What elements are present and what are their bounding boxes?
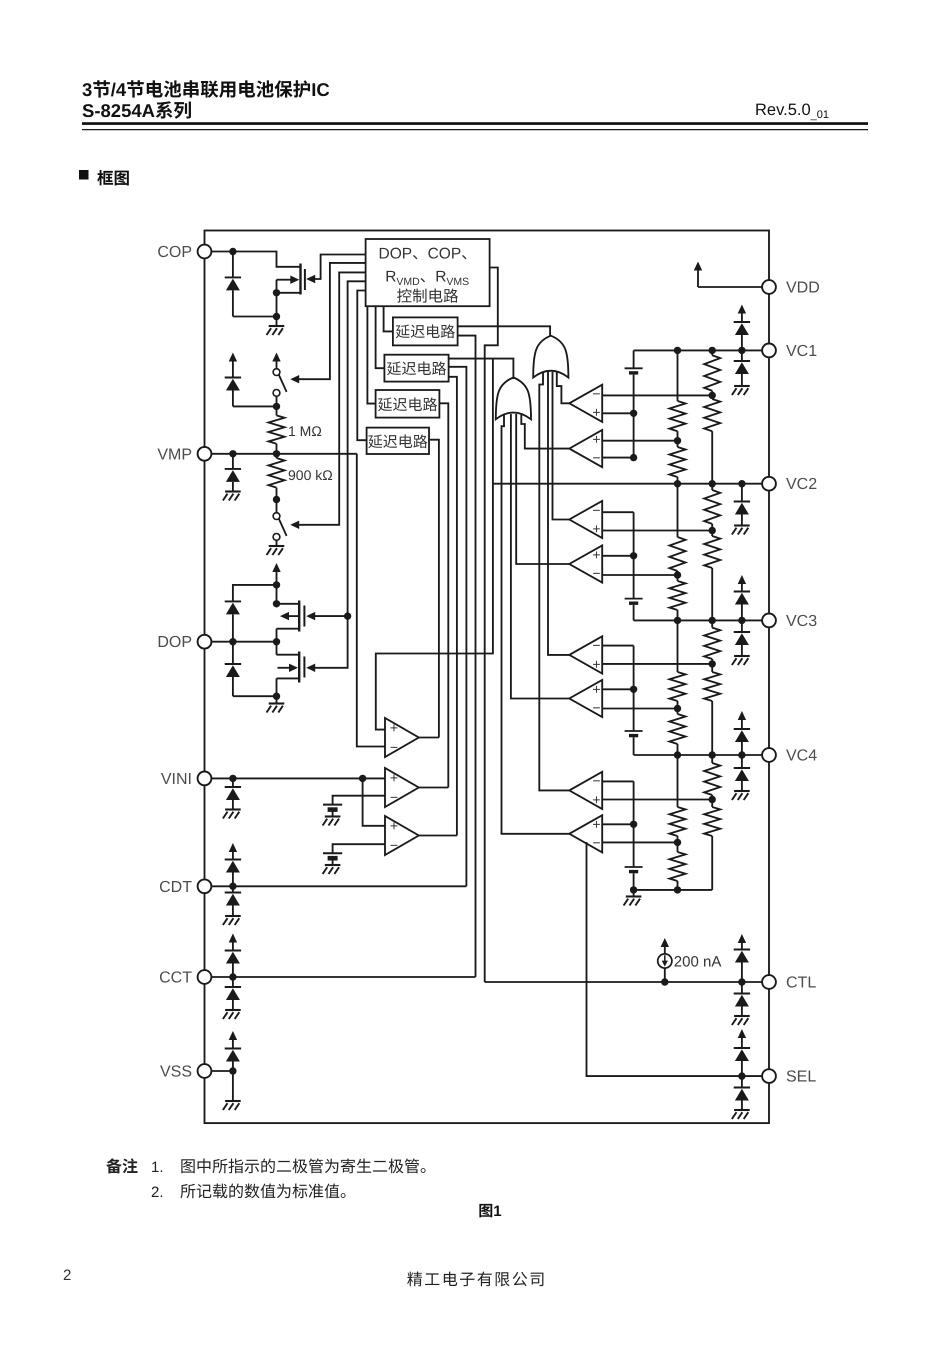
OR gate OR2 input leg from U4 xyxy=(516,414,569,564)
OR gate OR2 input leg from U8 xyxy=(502,413,572,834)
internal rail arrow above D15 xyxy=(738,575,746,584)
junction VMP resistor xyxy=(273,450,280,457)
wire DLY2 to control box xyxy=(376,306,385,368)
diode D11 (VSS parasitic) xyxy=(225,1048,241,1050)
figure caption 图1 xyxy=(479,1204,492,1218)
svg-text:+: + xyxy=(592,791,600,807)
wire VC3 xyxy=(634,619,763,621)
svg-text:+: + xyxy=(390,719,398,735)
svg-text:−: − xyxy=(592,450,600,466)
wire control box to switch SW1 xyxy=(295,263,366,379)
wire BT4 reference rail xyxy=(633,781,635,867)
wire VMP xyxy=(211,453,357,455)
wire VINI branch to U11 + xyxy=(363,778,385,825)
wire U9 - to VMP xyxy=(357,454,385,747)
wire DLY3 to control box xyxy=(367,306,375,403)
junction SW2 top xyxy=(273,496,280,503)
internal rail arrow above D12 xyxy=(738,305,746,314)
wire BT4 to ground rail xyxy=(633,873,635,890)
delay circuit block DLY3 xyxy=(376,390,440,418)
control circuit block (DOP/COP/RVMD/RVMS 控制电路) xyxy=(366,239,490,306)
diode D15 (VC3 upper parasitic) xyxy=(734,591,750,593)
diode D8 (CDT lower parasitic) xyxy=(232,886,234,892)
wire U3 + to divider tap xyxy=(602,530,712,532)
svg-text:+: + xyxy=(592,816,600,832)
resistors R13/R14 (divider A cell4) xyxy=(711,755,713,763)
internal pull-up arrow at D11 xyxy=(229,1031,237,1040)
junction divider B bottom xyxy=(674,886,681,893)
svg-text:CDT: CDT xyxy=(159,879,192,896)
wire control box to Q1 gate xyxy=(311,255,366,280)
svg-text:−: − xyxy=(592,637,600,653)
svg-text:VINI: VINI xyxy=(161,771,192,788)
junction CCT xyxy=(229,973,236,980)
comparator U10 (discharge overcurrent) xyxy=(385,768,419,807)
svg-text:−: − xyxy=(592,773,600,789)
svg-text:+: + xyxy=(592,404,600,420)
wire U6 + to reference BT3 xyxy=(602,688,633,690)
svg-text:−: − xyxy=(390,789,398,805)
reference VREF2 xyxy=(323,852,342,854)
internal rail arrow above D17 xyxy=(738,711,746,720)
wire U4 + to reference BT2 xyxy=(602,555,633,557)
svg-text:VDD: VDD xyxy=(786,280,820,297)
wire U2 + to divider tap xyxy=(602,440,677,442)
comparator U9 (load short detect) xyxy=(385,718,419,757)
pin circle VC2 xyxy=(762,477,776,491)
OR gate OR2 input leg from U6 xyxy=(511,414,570,699)
svg-text:VMS: VMS xyxy=(446,276,469,288)
IC boundary box xyxy=(205,231,770,1124)
wire DLY2 to OR2 output xyxy=(449,359,514,378)
wire U3 - to reference BT2 xyxy=(602,511,633,513)
diode D12 (VC1 upper parasitic) xyxy=(734,321,750,323)
ground at VREF2 xyxy=(325,864,341,866)
wire BT2 to VC3 xyxy=(633,605,635,621)
junction Q3 source ground node xyxy=(273,693,280,700)
ground at D6 xyxy=(225,808,241,810)
wire BT1 reference rail xyxy=(633,375,635,458)
pin circle VMP xyxy=(198,447,212,461)
diode D2 (VMP switch branch) xyxy=(225,377,241,379)
svg-text:200 nA: 200 nA xyxy=(674,954,722,971)
pin circle SEL xyxy=(762,1069,776,1083)
diode D14 (VC2 parasitic) xyxy=(741,484,743,502)
diode D10 (CCT lower parasitic) xyxy=(232,977,234,987)
diode D16 (VC3 lower parasitic) xyxy=(741,620,743,632)
wire COP to Q1 xyxy=(211,252,301,267)
wire DLY4 to comparator U9 output xyxy=(429,440,439,738)
wire BT3 reference rail xyxy=(633,646,635,731)
battery BT3 (cell3 reference) xyxy=(625,730,643,732)
resistor RV1 1 MΩ xyxy=(276,406,278,415)
svg-text:3: 3 xyxy=(82,79,92,100)
footer company name xyxy=(407,1272,422,1287)
svg-text:+: + xyxy=(390,817,398,833)
resistors R1/R2 (divider A cell1) xyxy=(711,350,713,355)
wire control box to Q2/Q3 gates xyxy=(311,281,366,668)
wire VSS to ground xyxy=(232,1071,234,1101)
svg-text:VC4: VC4 xyxy=(786,748,817,765)
wire U5 - to reference BT3 xyxy=(602,645,633,647)
wire U1 - to divider tap xyxy=(602,394,712,396)
svg-text:900 kΩ: 900 kΩ xyxy=(288,467,333,483)
diode D9 (CCT upper parasitic) xyxy=(225,950,241,952)
comparator U3 (cell 2 overcharge) xyxy=(569,501,602,538)
ground at VREF1 xyxy=(325,815,341,817)
svg-text:R: R xyxy=(435,269,446,286)
OR gate OR1 input leg from U1 xyxy=(557,371,570,403)
junction resistor top xyxy=(273,403,280,410)
ground at D13 xyxy=(734,385,750,387)
wire control box to CTL xyxy=(485,268,498,983)
svg-text:S-8254A: S-8254A xyxy=(82,100,155,121)
comparator U8 (cell 4 overdischarge) xyxy=(569,815,602,852)
ground at D18 xyxy=(734,790,750,792)
pin circle VSS xyxy=(198,1064,212,1078)
diode D4 (DOP upper parasitic) xyxy=(233,585,277,602)
diode D7 (CDT upper parasitic) xyxy=(225,859,241,861)
junction DOP pull-up xyxy=(273,581,280,588)
wire VINI to U10 + xyxy=(211,777,385,779)
pin circle COP xyxy=(198,245,212,259)
internal rail arrow above D21 xyxy=(738,1029,746,1038)
junction gate bus xyxy=(344,612,351,619)
pin circle CCT xyxy=(198,970,212,984)
svg-text:VC1: VC1 xyxy=(786,343,817,360)
OR gate OR1 input leg from U3 xyxy=(553,372,570,520)
wire group4 bottom rail xyxy=(634,889,713,891)
OR gate OR2 input leg from U2 xyxy=(521,413,569,449)
svg-text:Rev.5.0_01: Rev.5.0_01 xyxy=(755,101,829,121)
svg-text:SEL: SEL xyxy=(786,1069,816,1086)
wire U4 - to divider tap xyxy=(602,574,677,576)
svg-text:+: + xyxy=(592,681,600,697)
wire U1 + to reference BT1 xyxy=(602,412,633,414)
wire VC4 xyxy=(634,754,763,756)
wire U10 output xyxy=(419,787,449,789)
transistor Q3 (DOP lower) xyxy=(276,642,278,655)
svg-text:/4: /4 xyxy=(111,79,127,100)
resistors R9/R10 (divider A cell3) xyxy=(711,620,713,627)
current source I1 200 nA xyxy=(664,968,666,982)
wire DLY3 to comparator U10 output xyxy=(439,403,448,787)
svg-text:VC3: VC3 xyxy=(786,613,817,630)
internal pull-up arrow at DOP xyxy=(272,563,280,572)
junction VSS xyxy=(229,1067,236,1074)
comparator U1 (cell 1 overcharge) xyxy=(569,385,602,422)
wire DLY1 to OR1 output xyxy=(458,326,550,335)
wire control box to switch SW2 xyxy=(295,272,366,524)
junction CDT xyxy=(229,883,236,890)
wire DLY1 to control box xyxy=(384,306,393,331)
diode D5 (DOP lower parasitic) xyxy=(232,642,234,664)
svg-text:1 MΩ: 1 MΩ xyxy=(288,423,322,439)
ground at D20 xyxy=(734,1015,750,1017)
svg-text:VSS: VSS xyxy=(160,1064,192,1081)
wire BT3 to VC4 xyxy=(633,737,635,755)
battery BT4 (cell4 reference) xyxy=(625,866,643,868)
switch SW1 (RVMD select) xyxy=(273,369,280,376)
junction SEL diode xyxy=(738,1072,745,1079)
pin circle VC1 xyxy=(762,344,776,358)
svg-text:−: − xyxy=(592,835,600,851)
ground at VSS xyxy=(225,1100,241,1102)
svg-text:CTL: CTL xyxy=(786,975,816,992)
OR gate OR1 (overcharge detect) xyxy=(533,336,568,378)
svg-text:CCT: CCT xyxy=(159,970,192,987)
internal pull-up arrow at D7 xyxy=(229,843,237,852)
comparator U2 (cell 1 overdischarge) xyxy=(569,430,602,467)
pin circle CDT xyxy=(198,879,212,893)
comparator U4 (cell 2 overdischarge) xyxy=(569,545,602,582)
diode D20 (CTL lower parasitic) xyxy=(741,982,743,994)
ground at Q1 xyxy=(276,317,278,327)
diode D21 (SEL upper parasitic) xyxy=(734,1047,750,1049)
wire branch to Q2 gate xyxy=(311,615,348,617)
pin circle DOP xyxy=(198,635,212,649)
pin circle CTL xyxy=(762,975,776,989)
ground at D3 xyxy=(225,490,241,492)
junction VMP diode xyxy=(229,450,236,457)
resistors R15/R16 (divider B cell4) xyxy=(677,755,679,807)
section heading 框图 xyxy=(97,170,113,185)
wire BT2 reference rail xyxy=(633,512,635,598)
junction BT4 ground xyxy=(630,886,637,893)
svg-text:IC: IC xyxy=(311,79,330,100)
svg-text:2.: 2. xyxy=(151,1184,164,1201)
internal rail arrow above D19 xyxy=(738,934,746,943)
wire U2 - to reference BT1 xyxy=(602,457,633,459)
diode D19 (CTL upper parasitic) xyxy=(734,949,750,951)
svg-text:VMD: VMD xyxy=(396,276,420,288)
svg-text:DOP: DOP xyxy=(157,634,192,651)
resistor RV2 900 kΩ xyxy=(276,454,278,458)
wire DOP xyxy=(211,641,277,643)
delay circuit block DLY2 xyxy=(384,355,448,382)
resistors R3/R4 (divider B cell1) xyxy=(677,350,679,401)
junction Q2 drain xyxy=(273,600,280,607)
internal pull-up arrow at D9 xyxy=(229,934,237,943)
wire control box to DLY4 input xyxy=(357,291,366,441)
ground at SW2 xyxy=(269,545,285,547)
diode D22 (SEL lower parasitic) xyxy=(741,1076,743,1087)
diode D6 (VINI parasitic) xyxy=(232,778,234,787)
wire DLY2 to CDT xyxy=(449,367,467,887)
wire CTL xyxy=(485,981,763,983)
wire U8 - to divider tap xyxy=(602,841,677,843)
transistor Q1 (COP driver) xyxy=(299,264,301,295)
wire VC2 xyxy=(493,483,762,485)
ground at D8 xyxy=(225,915,241,917)
battery BT1 (cell1 reference) xyxy=(625,367,643,369)
wire U11 - to reference xyxy=(333,844,385,853)
arrow above I1 xyxy=(661,938,669,947)
wire U9 output xyxy=(419,737,439,739)
wire VC1 to BT1 xyxy=(633,350,635,368)
reference VREF1 xyxy=(323,804,342,806)
svg-text:−: − xyxy=(390,837,398,853)
wire CDT xyxy=(211,885,466,887)
svg-text:VMP: VMP xyxy=(157,446,192,463)
delay circuit block DLY1 xyxy=(393,317,458,345)
svg-text:DOP: DOP xyxy=(379,246,413,263)
svg-text:VC2: VC2 xyxy=(786,476,817,493)
battery BT2 (cell2 reference) xyxy=(625,598,643,600)
wire U6 - to divider tap xyxy=(602,708,677,710)
diode D13 (VC1 lower parasitic) xyxy=(741,350,743,361)
comparator U6 (cell 3 overdischarge) xyxy=(569,680,602,717)
svg-text:+: + xyxy=(390,769,398,785)
svg-text:+: + xyxy=(592,431,600,447)
diode D18 (VC4 lower parasitic) xyxy=(741,755,743,768)
ground at BT4 xyxy=(633,890,635,897)
junction DOP transistors xyxy=(273,638,280,645)
wire U7 + to divider tap xyxy=(602,799,712,801)
svg-text:−: − xyxy=(390,739,398,755)
pin circle VC3 xyxy=(762,614,776,628)
diode D1 (COP parasitic) xyxy=(232,252,234,278)
ground at D14 xyxy=(734,524,750,526)
wire DLY1 to CCT xyxy=(458,336,476,977)
pin circle VC4 xyxy=(762,748,776,762)
OR gate OR1 input leg from U5 xyxy=(548,372,570,655)
wire VDD xyxy=(698,286,762,288)
wire U8 + to reference BT4 xyxy=(602,823,633,825)
resistors R5/R6 (divider A cell2) xyxy=(711,484,713,490)
diode D3 (VMP parasitic) xyxy=(232,454,234,469)
svg-text:−: − xyxy=(592,386,600,402)
arrow VDD internal rail xyxy=(694,262,702,271)
comparator U7 (cell 4 overcharge) xyxy=(569,772,602,809)
OR gate OR1 input leg from U7 xyxy=(539,371,569,790)
header double rule xyxy=(82,122,868,125)
svg-text:1: 1 xyxy=(493,1203,501,1220)
junction COP diode xyxy=(229,248,236,255)
note label 备注 xyxy=(106,1158,122,1173)
pin circle VINI xyxy=(198,772,212,786)
comparator U11 (charge overcurrent) xyxy=(385,816,419,855)
svg-text:−: − xyxy=(592,565,600,581)
resistors R11/R12 (divider B cell3) xyxy=(677,620,679,672)
internal pull-up arrow at D2 xyxy=(229,353,237,362)
wire VSS xyxy=(211,1070,233,1072)
ground at D22 xyxy=(734,1109,750,1111)
wire CCT xyxy=(211,976,476,978)
delay circuit block DLY4 xyxy=(367,428,429,454)
wire U8 to SEL xyxy=(587,842,763,1076)
junction Q1 ground node xyxy=(273,313,280,320)
svg-text:−: − xyxy=(592,502,600,518)
wire U7 - to reference BT4 xyxy=(602,780,633,782)
wire DLY2 to comparator U11 output xyxy=(449,377,457,836)
wire U5 + to divider tap xyxy=(602,663,712,665)
wire VC1 xyxy=(634,349,763,351)
svg-text:R: R xyxy=(385,269,396,286)
svg-text:1.: 1. xyxy=(151,1159,164,1176)
ground at D10 xyxy=(225,1009,241,1011)
pin circle VDD xyxy=(762,280,776,294)
svg-text:COP: COP xyxy=(428,246,462,263)
internal pull-up arrow at SW1 xyxy=(272,353,280,362)
ground at D16 xyxy=(734,655,750,657)
svg-text:+: + xyxy=(592,546,600,562)
resistors R7/R8 (divider B cell2) xyxy=(677,484,679,537)
switch SW2 (RVMS select) xyxy=(276,500,278,513)
svg-text:+: + xyxy=(592,520,600,536)
wire U10 - to reference xyxy=(333,796,385,805)
transistor Q2 (DOP upper) xyxy=(276,585,278,604)
diode D17 (VC4 upper parasitic) xyxy=(734,728,750,730)
svg-text:+: + xyxy=(592,656,600,672)
svg-text:−: − xyxy=(592,699,600,715)
comparator U5 (cell 3 overcharge) xyxy=(569,636,602,673)
junction VINI branch xyxy=(359,775,366,782)
svg-text:2: 2 xyxy=(63,1267,71,1284)
svg-text:COP: COP xyxy=(157,244,192,261)
OR gate OR2 (overdischarge detect) xyxy=(496,378,531,420)
ground at Q3 xyxy=(276,696,278,703)
section marker square xyxy=(79,170,89,180)
wire U11 output xyxy=(419,835,457,837)
junction Q1 source-body xyxy=(273,289,280,296)
wire node VMS sense (U9 + input riser) xyxy=(376,359,493,730)
junction VINI diode xyxy=(229,775,236,782)
junction DOP diode xyxy=(229,638,236,645)
